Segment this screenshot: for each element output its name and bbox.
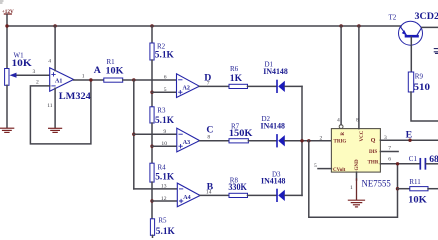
svg-text:D: D (204, 73, 211, 84)
capacitor C1 (409, 154, 438, 169)
wire R6 to D1 (248, 85, 277, 87)
svg-text:CVolt: CVolt (333, 168, 346, 173)
wire R3-R4 (151, 123, 153, 163)
diode D2 (261, 115, 286, 147)
resistor R7 (229, 122, 253, 143)
IC U1 NE7555 (314, 118, 391, 192)
wire A1 output (74, 79, 104, 81)
node junction tap A2+ (150, 91, 153, 94)
svg-text:4: 4 (337, 118, 340, 124)
wire R8 to D3 (248, 194, 277, 196)
svg-text:68: 68 (429, 154, 438, 165)
wire pin4 A1 (54, 26, 56, 71)
wire D1 to bus (285, 85, 302, 87)
svg-text:5.1K: 5.1K (155, 171, 175, 182)
node junction loop/TRIG (307, 139, 310, 142)
svg-text:4: 4 (48, 59, 51, 65)
svg-text:2: 2 (320, 136, 323, 142)
resistor R9 (408, 72, 430, 93)
op-amp A4 (161, 183, 212, 207)
node junction THR/loop (396, 162, 399, 165)
wire pin1 GND (356, 172, 358, 180)
svg-text:TRIG: TRIG (334, 139, 347, 144)
svg-text:A4: A4 (183, 195, 190, 201)
svg-text:10K: 10K (106, 66, 125, 77)
svg-text:R11: R11 (409, 178, 421, 186)
svg-text:5.1K: 5.1K (155, 50, 175, 61)
svg-text:11: 11 (47, 103, 53, 109)
power +12V (2, 9, 14, 69)
svg-text:1: 1 (350, 185, 353, 191)
wire A2 out (199, 85, 229, 87)
resistor R4 (150, 163, 175, 182)
wire bus to A4- (134, 188, 178, 190)
node junction rail/R2 (150, 24, 153, 27)
svg-text:3CD2: 3CD2 (415, 11, 438, 22)
svg-text:6: 6 (164, 75, 167, 81)
ground (under A1 pin11) (49, 128, 62, 132)
op-amp A1 (33, 59, 92, 109)
resistor R5 (150, 216, 175, 237)
resistor R1 (104, 58, 124, 82)
svg-text:DIS: DIS (369, 150, 378, 155)
svg-text:10: 10 (161, 141, 167, 147)
svg-text:THR: THR (368, 160, 379, 165)
svg-text:IN4148: IN4148 (261, 120, 286, 130)
svg-text:10K: 10K (12, 58, 33, 69)
node junction R11/loop (396, 187, 399, 190)
node junction tap A3+ (150, 145, 153, 148)
wire pin7 stub (380, 151, 398, 153)
diode D3 (261, 171, 286, 202)
wire T2 base down (410, 37, 412, 72)
svg-text:A: A (94, 65, 101, 76)
svg-text:5.1K: 5.1K (156, 226, 176, 237)
resistor R11 (398, 178, 438, 205)
wire pin4 555 (340, 26, 342, 125)
svg-text:R5: R5 (158, 216, 167, 224)
svg-text:R3: R3 (157, 107, 166, 115)
svg-text:2: 2 (36, 79, 39, 85)
wire D2 to TRIG (285, 140, 332, 142)
wire top rail (7, 25, 401, 27)
wire bus to A3- (134, 133, 177, 135)
wire A3 out (200, 140, 229, 142)
node junction rail/pin4-555 (339, 24, 342, 27)
svg-text:1K: 1K (230, 73, 243, 84)
svg-text:10K: 10K (408, 194, 427, 205)
svg-text:5.1K: 5.1K (155, 115, 175, 126)
op-amp A3 (161, 128, 210, 152)
node junction rail/pin8-555 (357, 24, 360, 27)
node junction rail/W1 (5, 24, 8, 27)
svg-text:NE7555: NE7555 (362, 180, 392, 190)
wire R9 to edge (411, 92, 438, 121)
node junction feedback/output (89, 78, 92, 81)
svg-text:IN4148: IN4148 (263, 66, 288, 76)
wire R1 to A2 (123, 79, 177, 81)
ground (under W1) (0, 128, 14, 132)
svg-text:1: 1 (82, 74, 85, 80)
corner artifact (0, 1, 3, 3)
resistor R6 (229, 65, 248, 88)
svg-text:3: 3 (33, 69, 36, 75)
wire R7 to D2 (248, 140, 276, 142)
op-amp A2 (164, 74, 210, 98)
clipped label fragment right edge (434, 49, 438, 54)
wire pin8 555 (358, 26, 360, 129)
svg-text:IN4148: IN4148 (261, 176, 286, 186)
node junction bus/A3 (132, 133, 135, 136)
svg-text:9: 9 (163, 129, 166, 135)
svg-text:12: 12 (161, 196, 167, 202)
potentiometer W1 (5, 52, 50, 128)
ground (under 555) (348, 200, 364, 207)
svg-text:13: 13 (161, 184, 167, 190)
svg-text:R: R (341, 132, 346, 136)
wire tap to A3+ (152, 145, 177, 147)
wire pin5 stub (318, 168, 331, 170)
svg-text:7: 7 (388, 146, 391, 152)
wire T2 collector out (422, 26, 438, 28)
wire loop down (309, 141, 398, 217)
wire A4 out (200, 194, 229, 196)
svg-text:A3: A3 (183, 140, 190, 146)
resistor R3 (150, 107, 175, 127)
wire R2-R3 (151, 60, 153, 107)
svg-text:A1: A1 (55, 79, 62, 85)
svg-text:T2: T2 (389, 14, 397, 22)
resistor R8 (228, 177, 247, 198)
node junction bus top (132, 78, 135, 81)
svg-text:B: B (207, 182, 214, 193)
wire A1 feedback loop (30, 80, 91, 144)
wire R2 top lead (151, 26, 153, 43)
svg-text:6: 6 (388, 157, 391, 163)
svg-text:C: C (206, 125, 213, 136)
svg-text:5: 5 (164, 87, 167, 93)
diode D1 (263, 60, 288, 92)
wire tap to A4+ (152, 200, 177, 202)
svg-text:A2: A2 (183, 86, 190, 92)
wire pin11 A1 (54, 88, 56, 127)
wire Q to E (380, 139, 438, 141)
wire pin6 THR (380, 163, 419, 165)
wire signal bus (133, 80, 135, 189)
svg-text:5: 5 (314, 163, 317, 169)
wire tap to A2+ (152, 91, 177, 93)
svg-text:Q: Q (371, 138, 376, 144)
svg-text:510: 510 (414, 82, 431, 93)
svg-text:R4: R4 (158, 164, 167, 172)
wire D3 to bus (285, 194, 302, 196)
svg-text:150K: 150K (229, 128, 253, 139)
node E dot (408, 139, 411, 142)
svg-text:C1: C1 (409, 155, 418, 163)
wire R4-R5 (151, 182, 153, 219)
wire diode bus (301, 86, 303, 195)
svg-text:R6: R6 (230, 65, 239, 73)
svg-text:GND: GND (355, 159, 360, 171)
node junction bus/TRIG (300, 139, 303, 142)
resistor R2 (150, 43, 174, 61)
node junction rail/pin4 (53, 24, 56, 27)
svg-text:LM324: LM324 (59, 92, 91, 102)
node junction tap A4+ (150, 199, 153, 202)
wire R5 bottom (152, 235, 154, 238)
transistor T2 (389, 11, 438, 45)
svg-text:R9: R9 (415, 72, 424, 80)
svg-text:E: E (406, 130, 413, 141)
svg-text:VCC: VCC (360, 130, 365, 141)
svg-text:330K: 330K (228, 182, 247, 193)
